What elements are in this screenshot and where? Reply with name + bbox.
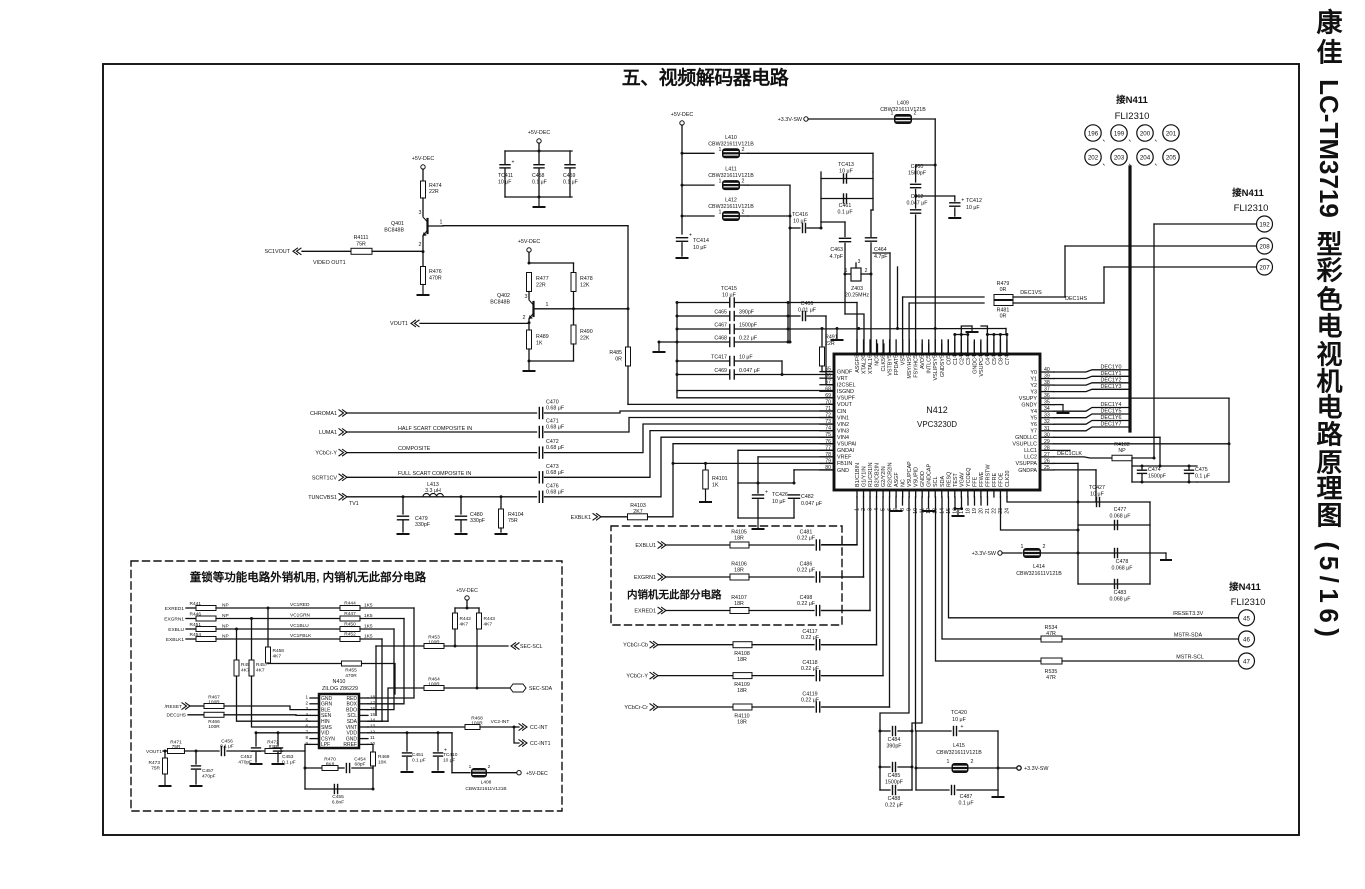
svg-text:15: 15 <box>370 712 376 717</box>
svg-text:0R: 0R <box>615 357 622 363</box>
svg-text:Y7: Y7 <box>1030 429 1037 435</box>
svg-text:VSLIPSY: VSLIPSY <box>933 358 939 381</box>
svg-text:29: 29 <box>1044 439 1050 445</box>
svg-text:64: 64 <box>855 352 861 358</box>
svg-text:0R: 0R <box>1000 314 1007 320</box>
svg-text:100R: 100R <box>208 700 220 706</box>
svg-text:75R: 75R <box>172 744 181 750</box>
svg-text:3: 3 <box>858 259 861 265</box>
svg-text:RESQ: RESQ <box>946 472 952 487</box>
svg-text:COMPOSITE: COMPOSITE <box>398 446 431 452</box>
svg-text:17: 17 <box>370 700 376 705</box>
svg-text:R458: R458 <box>273 648 285 654</box>
svg-text:5: 5 <box>305 718 308 723</box>
svg-text:FPDAT: FPDAT <box>894 357 900 375</box>
svg-text:10 μF: 10 μF <box>693 245 707 251</box>
svg-text:35: 35 <box>1044 400 1050 406</box>
svg-text:EXBLK1: EXBLK1 <box>571 515 591 521</box>
svg-text:18R: 18R <box>737 688 747 694</box>
svg-text:C483: C483 <box>1114 590 1127 596</box>
svg-text:FB1IN: FB1IN <box>837 461 852 467</box>
svg-text:N412: N412 <box>926 405 948 415</box>
svg-text:12K: 12K <box>580 283 590 289</box>
svg-text:+3.3V-SW: +3.3V-SW <box>1024 766 1049 772</box>
svg-text:GNDCAP: GNDCAP <box>927 464 933 487</box>
svg-text:C488: C488 <box>888 796 901 802</box>
svg-text:R473: R473 <box>149 760 161 766</box>
svg-text:接N411: 接N411 <box>1116 94 1148 106</box>
svg-text:VSUPLLC: VSUPLLC <box>1012 442 1037 448</box>
svg-text:+: + <box>512 159 515 165</box>
svg-text:CIN: CIN <box>837 409 846 415</box>
svg-text:SEC-SDA: SEC-SDA <box>529 686 553 692</box>
svg-text:18R: 18R <box>734 568 744 574</box>
svg-text:CHROMA1: CHROMA1 <box>310 411 337 417</box>
svg-text:C463: C463 <box>830 247 843 253</box>
svg-text:Q402: Q402 <box>497 293 510 299</box>
svg-text:FFOE: FFOE <box>998 472 1004 487</box>
svg-text:100R: 100R <box>208 724 220 730</box>
svg-text:0.68 μF: 0.68 μF <box>546 425 565 431</box>
svg-text:2: 2 <box>865 268 868 274</box>
svg-text:0.68 μF: 0.68 μF <box>546 489 565 495</box>
svg-text:+: + <box>961 198 964 204</box>
svg-text:TC415: TC415 <box>721 286 737 292</box>
svg-text:NP: NP <box>1118 448 1126 454</box>
svg-text:9: 9 <box>907 508 913 511</box>
svg-text:LPF: LPF <box>321 742 330 748</box>
svg-text:LLC2: LLC2 <box>1024 455 1037 461</box>
svg-text:1: 1 <box>845 268 848 274</box>
svg-text:R469: R469 <box>378 754 390 760</box>
svg-text:C7: C7 <box>1005 358 1011 365</box>
svg-text:6: 6 <box>305 724 308 729</box>
svg-text:FLI2310: FLI2310 <box>1231 597 1266 608</box>
svg-text:YCbCr-Y: YCbCr-Y <box>315 451 337 457</box>
svg-text:C485: C485 <box>888 773 901 779</box>
svg-text:VPC3230D: VPC3230D <box>917 420 957 429</box>
svg-text:24: 24 <box>1004 508 1010 514</box>
svg-text:VIN3: VIN3 <box>837 428 849 434</box>
svg-text:I2CSEL: I2CSEL <box>837 383 856 389</box>
svg-text:30: 30 <box>1044 432 1050 438</box>
svg-text:74: 74 <box>825 426 831 432</box>
svg-text:470pF: 470pF <box>202 774 216 780</box>
svg-text:EXBLK1: EXBLK1 <box>166 637 184 643</box>
svg-text:1: 1 <box>305 695 308 700</box>
svg-text:55: 55 <box>913 352 919 358</box>
svg-text:C484: C484 <box>888 737 901 743</box>
svg-text:+3.3V-SW: +3.3V-SW <box>972 551 997 557</box>
svg-text:0.1 μF: 0.1 μF <box>563 180 578 186</box>
svg-text:0.068 μF: 0.068 μF <box>1111 566 1133 572</box>
svg-text:2: 2 <box>742 210 745 216</box>
svg-text:Y1: Y1 <box>1030 376 1037 382</box>
svg-text:C466: C466 <box>801 301 814 307</box>
svg-text:+: + <box>961 724 964 730</box>
svg-text:100R: 100R <box>471 721 483 727</box>
svg-text:DEC1HS: DEC1HS <box>1065 296 1087 302</box>
svg-text:37: 37 <box>1044 387 1050 393</box>
svg-text:0.068 μF: 0.068 μF <box>1109 597 1131 603</box>
svg-text:199: 199 <box>1114 131 1125 138</box>
svg-text:R442: R442 <box>460 616 472 622</box>
svg-text:C3: C3 <box>966 358 972 365</box>
svg-text:R444: R444 <box>344 601 356 607</box>
svg-text:16: 16 <box>370 706 376 711</box>
svg-text:34: 34 <box>1044 406 1050 412</box>
svg-text:22R: 22R <box>825 341 835 347</box>
svg-text:LC-TM3719: LC-TM3719 <box>1314 79 1344 218</box>
svg-text:6K8: 6K8 <box>326 762 335 768</box>
svg-text:Y4: Y4 <box>1030 409 1037 415</box>
svg-text:CBW321611V121B: CBW321611V121B <box>936 750 982 756</box>
svg-text:470R: 470R <box>345 673 357 679</box>
svg-text:GNDF: GNDF <box>837 369 853 375</box>
svg-text:2K7: 2K7 <box>633 509 642 515</box>
svg-text:FFRE: FFRE <box>992 473 998 487</box>
svg-text:C465: C465 <box>714 310 727 316</box>
svg-text:Y2: Y2 <box>1030 383 1037 389</box>
svg-text:TC414: TC414 <box>693 238 709 244</box>
svg-text:R4101: R4101 <box>712 476 728 482</box>
svg-text:RREF: RREF <box>343 742 357 748</box>
svg-text:36: 36 <box>1044 393 1050 399</box>
svg-text:8: 8 <box>305 735 308 740</box>
svg-text:VREF: VREF <box>837 455 852 461</box>
svg-text:R2/CR2IN: R2/CR2IN <box>888 462 894 487</box>
svg-text:图: 图 <box>1316 501 1342 531</box>
svg-text:R4111: R4111 <box>354 235 369 241</box>
svg-text:+: + <box>765 490 768 496</box>
svg-text:11: 11 <box>370 735 375 740</box>
svg-text:CLK20: CLK20 <box>1005 471 1011 487</box>
svg-text:2: 2 <box>488 764 491 770</box>
svg-text:EXGRN1: EXGRN1 <box>164 617 184 623</box>
svg-text:C482: C482 <box>801 494 814 500</box>
svg-text:70: 70 <box>825 399 831 405</box>
svg-text:DEC1CLK: DEC1CLK <box>1057 451 1082 457</box>
svg-text:CBW321611V121B: CBW321611V121B <box>708 204 754 210</box>
svg-text:71: 71 <box>825 406 831 412</box>
svg-text:BC848B: BC848B <box>384 228 404 234</box>
svg-text:理: 理 <box>1316 474 1342 504</box>
svg-text:R1/CR1IN: R1/CR1IN <box>868 462 874 487</box>
svg-text:R443: R443 <box>484 616 496 622</box>
svg-text:65: 65 <box>825 367 831 373</box>
svg-text:+5V-DEC: +5V-DEC <box>412 156 435 162</box>
svg-text:接N411: 接N411 <box>1232 187 1264 199</box>
svg-text:10 μF: 10 μF <box>966 205 980 211</box>
svg-text:VIDEO OUT1: VIDEO OUT1 <box>313 260 346 266</box>
svg-text:2: 2 <box>419 242 422 248</box>
svg-text:YCOEQ: YCOEQ <box>966 468 972 487</box>
svg-text:/RESET: /RESET <box>165 704 182 710</box>
svg-text:47: 47 <box>1243 659 1250 666</box>
svg-text:DEC1Y2: DEC1Y2 <box>1101 377 1122 383</box>
svg-text:TC420: TC420 <box>951 710 967 716</box>
svg-text:FFE: FFE <box>972 476 978 487</box>
svg-text:100R: 100R <box>428 682 440 688</box>
svg-text:69: 69 <box>825 393 831 399</box>
svg-text:VSTBY: VSTBY <box>888 358 894 376</box>
svg-text:NC: NC <box>901 479 907 487</box>
svg-text:0.68 μF: 0.68 μF <box>546 470 565 476</box>
svg-text:L411: L411 <box>725 167 736 173</box>
svg-text:68pF: 68pF <box>355 762 366 768</box>
svg-text:ASGF: ASGF <box>855 357 861 372</box>
svg-text:VSUPPA: VSUPPA <box>1016 461 1038 467</box>
svg-text:SCL: SCL <box>933 477 939 488</box>
svg-text:2: 2 <box>1043 544 1046 550</box>
svg-text:10 μF: 10 μF <box>1090 492 1104 498</box>
svg-text:0.22 μF: 0.22 μF <box>797 536 816 542</box>
svg-text:ISGND: ISGND <box>837 389 854 395</box>
svg-text:电: 电 <box>1316 393 1342 423</box>
svg-text:ASGF: ASGF <box>894 472 900 487</box>
svg-text:0.1 μF: 0.1 μF <box>1195 474 1211 480</box>
svg-text:75R: 75R <box>356 242 366 248</box>
svg-text:4K7: 4K7 <box>273 654 282 660</box>
svg-text:C475: C475 <box>1195 467 1208 473</box>
svg-text:10 μF: 10 μF <box>443 758 455 764</box>
svg-text:18R: 18R <box>734 601 744 607</box>
svg-text:R452: R452 <box>344 632 356 638</box>
svg-text:Y5: Y5 <box>1030 416 1037 422</box>
svg-text:CBW321611V121B: CBW321611V121B <box>708 141 754 147</box>
svg-text:、: 、 <box>1102 134 1110 143</box>
svg-text:45: 45 <box>1243 616 1250 623</box>
svg-text:47R: 47R <box>1046 675 1056 681</box>
svg-text:YCbCr-Y: YCbCr-Y <box>626 674 648 680</box>
svg-text:1: 1 <box>719 147 722 153</box>
svg-text:80: 80 <box>825 465 831 471</box>
svg-text:0.1 μF: 0.1 μF <box>412 758 426 764</box>
svg-text:52: 52 <box>933 352 939 358</box>
svg-text:VSUPF: VSUPF <box>837 396 856 402</box>
svg-text:、: 、 <box>1102 158 1110 167</box>
svg-text:Y0: Y0 <box>1030 370 1037 376</box>
svg-text:20.25MHz: 20.25MHz <box>845 293 869 299</box>
svg-text:4K7: 4K7 <box>256 668 265 674</box>
svg-text:0.22 μF: 0.22 μF <box>801 635 820 641</box>
svg-text:童锁等功能电路外销机用, 内销机无此部分电路: 童锁等功能电路外销机用, 内销机无此部分电路 <box>190 570 427 584</box>
svg-text:26: 26 <box>1044 458 1050 464</box>
svg-text:46: 46 <box>1243 637 1250 644</box>
svg-text:R455: R455 <box>345 668 357 674</box>
svg-text:Q401: Q401 <box>391 221 404 227</box>
svg-text:1: 1 <box>546 302 549 308</box>
svg-text:+5V-DEC: +5V-DEC <box>528 130 551 136</box>
svg-text:GNDAI: GNDAI <box>837 448 854 454</box>
svg-text:196: 196 <box>1088 131 1099 138</box>
svg-text:22K: 22K <box>580 336 590 342</box>
svg-text:R454: R454 <box>190 632 202 638</box>
svg-text:0.22 μF: 0.22 μF <box>797 568 816 574</box>
svg-text:202: 202 <box>1088 155 1099 162</box>
svg-text:EXBLU: EXBLU <box>168 627 184 633</box>
svg-text:DEC1Y0: DEC1Y0 <box>1101 364 1122 370</box>
svg-text:DEC1Y7: DEC1Y7 <box>1101 422 1122 428</box>
svg-text:L410: L410 <box>725 135 737 141</box>
svg-text:1: 1 <box>440 220 443 226</box>
svg-text:4K7: 4K7 <box>460 622 469 628</box>
svg-text:1: 1 <box>947 759 950 765</box>
svg-text:10: 10 <box>913 508 919 514</box>
svg-text:接N411: 接N411 <box>1229 581 1261 593</box>
svg-text:C451: C451 <box>412 752 424 758</box>
svg-text:C474: C474 <box>1148 467 1161 473</box>
svg-text:/RESET3.3V: /RESET3.3V <box>1173 611 1204 617</box>
svg-text:C461: C461 <box>839 203 852 209</box>
svg-text:R446: R446 <box>190 612 202 618</box>
svg-text:VC1BLU: VC1BLU <box>290 623 309 629</box>
svg-text:C5: C5 <box>992 358 998 365</box>
svg-text:电: 电 <box>1316 312 1342 342</box>
svg-text:B2/CB2IN: B2/CB2IN <box>875 463 881 487</box>
svg-text:56: 56 <box>907 352 913 358</box>
svg-text:3: 3 <box>525 294 528 300</box>
svg-text:XTAL1: XTAL1 <box>868 358 874 374</box>
svg-text:C8: C8 <box>998 358 1004 365</box>
svg-text:0.047 μF: 0.047 μF <box>801 501 823 507</box>
svg-text:MSTR-SCL: MSTR-SCL <box>1176 655 1204 661</box>
svg-text:204: 204 <box>1140 155 1151 162</box>
svg-text:VOUT1: VOUT1 <box>390 321 408 327</box>
svg-text:VC1GRN: VC1GRN <box>290 613 311 619</box>
svg-text:10 μF: 10 μF <box>498 180 511 186</box>
svg-text:VOUT1: VOUT1 <box>146 749 162 755</box>
svg-text:MSY/HS: MSY/HS <box>907 358 913 379</box>
svg-text:3.3 μH: 3.3 μH <box>425 488 441 494</box>
svg-text:C459: C459 <box>563 173 576 179</box>
svg-text:佳: 佳 <box>1316 38 1342 68</box>
svg-text:B1/C1BIN: B1/C1BIN <box>855 463 861 487</box>
svg-text:CBW321611V121B: CBW321611V121B <box>708 173 754 179</box>
svg-text:33: 33 <box>1044 413 1050 419</box>
svg-text:2: 2 <box>742 179 745 185</box>
svg-text:205: 205 <box>1166 155 1177 162</box>
svg-text:1500pF: 1500pF <box>908 171 927 177</box>
svg-text:1: 1 <box>469 764 472 770</box>
svg-text:TC413: TC413 <box>838 162 854 168</box>
svg-text:R485: R485 <box>609 350 622 356</box>
svg-text:BC848B: BC848B <box>490 300 510 306</box>
svg-text:GNDPA: GNDPA <box>1018 468 1037 474</box>
svg-text:VIN2: VIN2 <box>837 422 849 428</box>
svg-text:0.22 μF: 0.22 μF <box>801 666 820 672</box>
svg-text:0.1 μF: 0.1 μF <box>837 210 853 216</box>
svg-text:0.1 μF: 0.1 μF <box>532 180 547 186</box>
svg-text:LLC1: LLC1 <box>1024 448 1037 454</box>
svg-text:C2: C2 <box>959 358 965 365</box>
svg-text:SCRT1CV: SCRT1CV <box>312 475 337 481</box>
svg-text:VSUPC: VSUPC <box>979 358 985 377</box>
svg-text:R490: R490 <box>580 329 593 335</box>
svg-text:22R: 22R <box>536 283 546 289</box>
svg-text:20: 20 <box>978 508 984 514</box>
svg-text:1500pF: 1500pF <box>885 780 904 786</box>
svg-text:YCbCr-Cr: YCbCr-Cr <box>624 705 648 711</box>
svg-text:EXRED1: EXRED1 <box>634 609 656 615</box>
svg-text:63: 63 <box>861 352 867 358</box>
svg-text:75: 75 <box>825 432 831 438</box>
svg-text:TC411: TC411 <box>498 173 513 179</box>
svg-text:康: 康 <box>1316 8 1343 38</box>
svg-text:C478: C478 <box>1116 559 1129 565</box>
svg-text:ZILOG Z86229: ZILOG Z86229 <box>322 686 358 692</box>
svg-text:VSUPAI: VSUPAI <box>837 442 856 448</box>
svg-text:VC2-INT: VC2-INT <box>491 719 510 725</box>
svg-text:27: 27 <box>1044 452 1050 458</box>
svg-text:18R: 18R <box>737 657 747 663</box>
svg-text:31: 31 <box>1044 426 1050 432</box>
svg-text:FULL SCART COMPOSITE IN: FULL SCART COMPOSITE IN <box>398 471 471 477</box>
svg-text:DEC1Y3: DEC1Y3 <box>1101 384 1122 390</box>
svg-text:76: 76 <box>825 439 831 445</box>
svg-text:201: 201 <box>1166 131 1177 138</box>
svg-text:21: 21 <box>985 508 991 514</box>
svg-text:GNDSY: GNDSY <box>940 358 946 378</box>
svg-text:200: 200 <box>1140 131 1151 138</box>
svg-text:NC: NC <box>875 358 881 366</box>
svg-text:330pF: 330pF <box>415 522 431 528</box>
svg-text:DEC1Y4: DEC1Y4 <box>1101 402 1122 408</box>
svg-text:9: 9 <box>305 741 308 746</box>
svg-text:18: 18 <box>965 508 971 514</box>
svg-text:0.1 μF: 0.1 μF <box>958 801 974 807</box>
svg-text:1: 1 <box>1021 544 1024 550</box>
svg-text:、: 、 <box>1128 134 1136 143</box>
svg-text:、: 、 <box>1154 134 1162 143</box>
svg-text:10 μF: 10 μF <box>772 499 786 505</box>
svg-text:470pF: 470pF <box>238 760 252 766</box>
svg-text:330pF: 330pF <box>470 518 486 524</box>
svg-text:207: 207 <box>1259 265 1270 272</box>
svg-text:0.22 μF: 0.22 μF <box>801 698 820 704</box>
svg-text:C1: C1 <box>953 358 959 365</box>
svg-text:VGAV: VGAV <box>959 472 965 487</box>
svg-text:0.047 μF: 0.047 μF <box>739 368 761 374</box>
svg-text:2: 2 <box>305 700 308 705</box>
svg-text:LUMA1: LUMA1 <box>319 430 337 436</box>
svg-text:10K: 10K <box>378 760 387 766</box>
svg-text:2: 2 <box>971 759 974 765</box>
svg-text:+5V-DEC: +5V-DEC <box>671 112 694 118</box>
svg-text:DEC1HS: DEC1HS <box>167 713 186 719</box>
svg-text:INTLC: INTLC <box>927 358 933 374</box>
svg-text:N410: N410 <box>333 679 346 685</box>
svg-text:1K: 1K <box>536 341 543 347</box>
svg-text:68: 68 <box>825 386 831 392</box>
svg-text:R441: R441 <box>190 601 202 607</box>
svg-text:0.047 μF: 0.047 μF <box>906 201 928 207</box>
svg-text:L414: L414 <box>1033 564 1045 570</box>
svg-text:12: 12 <box>370 729 376 734</box>
svg-text:视: 视 <box>1316 340 1342 370</box>
svg-text:C457: C457 <box>202 768 214 774</box>
svg-text:EXGRN1: EXGRN1 <box>634 575 656 581</box>
svg-text:2: 2 <box>523 315 526 321</box>
svg-text:L415: L415 <box>953 743 965 749</box>
svg-text:10 μF: 10 μF <box>739 355 753 361</box>
svg-text:R477: R477 <box>536 276 549 282</box>
svg-text:0.22 μF: 0.22 μF <box>797 601 816 607</box>
svg-text:C452: C452 <box>241 754 253 760</box>
svg-text:0.068 μF: 0.068 μF <box>1109 514 1131 520</box>
svg-text:13: 13 <box>370 724 376 729</box>
svg-text:TUNCVBS1: TUNCVBS1 <box>308 495 337 501</box>
